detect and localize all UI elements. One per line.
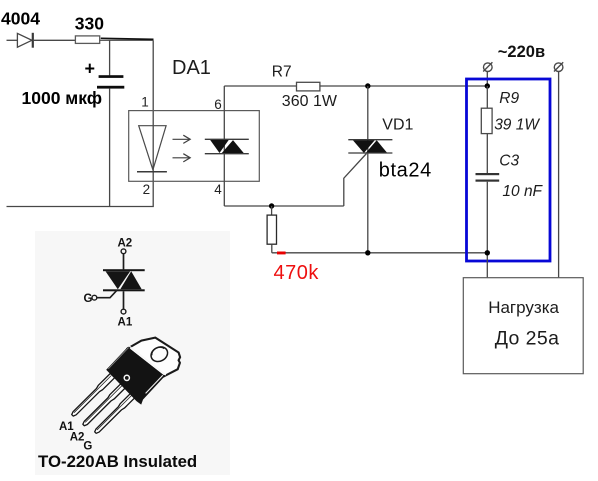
node junction <box>365 83 370 88</box>
TO-220 package drawing <box>70 338 180 435</box>
wire R9 to C3 <box>486 134 488 173</box>
wire C3 down to load <box>486 182 488 278</box>
svg-text:470k: 470k <box>274 262 320 284</box>
svg-text:+: + <box>85 58 96 78</box>
wire terminal L down <box>486 72 488 86</box>
load box <box>463 278 583 374</box>
svg-text:G: G <box>83 441 92 453</box>
svg-text:Нагрузка: Нагрузка <box>488 298 559 317</box>
package body <box>106 347 165 405</box>
wire pin6 through phototriac to pin4 <box>223 86 225 206</box>
triac VD1 <box>348 140 392 153</box>
resistor R7 <box>297 82 320 91</box>
light arrow <box>173 154 191 162</box>
snubber box (blue) <box>467 79 551 261</box>
package leg A2 <box>81 383 126 427</box>
wire top rail <box>224 85 296 87</box>
resistor R9 <box>481 108 492 133</box>
svg-text:39 1W: 39 1W <box>494 116 540 133</box>
resistor 330 <box>75 36 99 44</box>
wire gate of VD1 <box>344 154 367 207</box>
wire pin4 to gate rail <box>224 205 343 207</box>
tab hole <box>148 344 170 364</box>
capacitor 1000uF <box>97 75 124 88</box>
inset background <box>35 231 230 475</box>
body bottom highlight <box>146 375 163 393</box>
node junction <box>485 83 490 88</box>
wire <box>7 39 18 41</box>
body ridge highlight <box>108 348 128 369</box>
body crack vs tab <box>129 346 166 375</box>
wire <box>100 39 154 41</box>
wire top rail right <box>320 85 487 87</box>
wire capacitor to bottom rail <box>109 89 111 207</box>
wire A2 to triac <box>123 254 125 270</box>
svg-text:DA1: DA1 <box>172 57 211 79</box>
wire <box>34 39 76 41</box>
node junction <box>485 250 490 255</box>
node junction <box>269 203 274 208</box>
svg-text:TO-220AB Insulated: TO-220AB Insulated <box>38 452 197 471</box>
svg-text:C3: C3 <box>499 152 519 169</box>
wire 470k to mid rail <box>271 244 273 253</box>
photo-triac inside DA1 <box>205 139 249 153</box>
LED inside DA1 <box>137 126 167 172</box>
terminal R <box>554 62 563 71</box>
resistor 470k <box>267 215 276 244</box>
inset triac symbol <box>103 269 145 291</box>
wire terminal R down <box>558 72 560 278</box>
svg-text:VD1: VD1 <box>382 117 413 134</box>
diode D1 <box>17 33 32 48</box>
svg-text:360 1W: 360 1W <box>282 93 338 110</box>
optocoupler box <box>129 111 260 182</box>
package leg G <box>93 392 136 435</box>
capacitor C3 <box>476 173 500 182</box>
terminal G <box>92 295 97 300</box>
svg-text:2: 2 <box>143 182 151 197</box>
svg-text:1: 1 <box>141 95 149 110</box>
body dot <box>124 375 129 380</box>
svg-text:G: G <box>84 293 93 305</box>
wire to 470k <box>271 206 273 215</box>
svg-text:До 25а: До 25а <box>495 328 560 350</box>
svg-text:R9: R9 <box>499 90 519 107</box>
svg-text:A2: A2 <box>70 432 85 444</box>
terminal A1 <box>121 309 126 314</box>
light arrow <box>173 135 191 143</box>
wire VD1 anode <box>367 86 369 253</box>
node junction <box>365 250 370 255</box>
wire node to capacitor <box>109 40 111 75</box>
terminal L <box>483 62 492 71</box>
wire mid rail <box>272 252 488 254</box>
wire gate <box>97 290 117 298</box>
svg-text:4004: 4004 <box>1 9 40 29</box>
svg-text:1000 мкф: 1000 мкф <box>22 88 103 108</box>
wire triac to A1 <box>123 291 125 309</box>
wire to R9 <box>486 86 488 108</box>
package leg A1 <box>70 373 114 417</box>
wire bottom-left rail <box>7 40 154 206</box>
svg-text:~220в: ~220в <box>498 43 545 61</box>
wire thick overlay <box>101 38 154 39</box>
svg-text:6: 6 <box>214 97 222 112</box>
svg-text:330: 330 <box>75 14 104 34</box>
svg-text:R7: R7 <box>272 64 292 81</box>
package tab <box>128 338 180 377</box>
svg-text:bta24: bta24 <box>379 160 432 182</box>
svg-text:4: 4 <box>214 182 222 197</box>
svg-text:10 nF: 10 nF <box>502 183 543 200</box>
svg-text:A1: A1 <box>118 316 133 328</box>
svg-text:A2: A2 <box>117 237 132 249</box>
red mark <box>277 252 286 255</box>
terminal A2 <box>121 249 126 254</box>
